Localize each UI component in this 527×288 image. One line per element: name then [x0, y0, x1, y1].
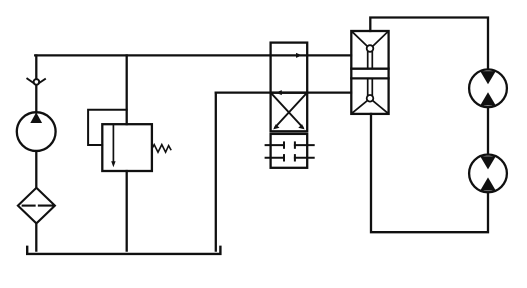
wire pump to filter [35, 151, 37, 188]
directional valve DV1 position box 2 crossed arrows [271, 93, 308, 132]
pilot operated check valve block CB1 [351, 31, 388, 114]
relief valve RV1 [102, 124, 152, 171]
wire relief pilot loop [88, 110, 127, 145]
wire return line vertical to tank [215, 93, 217, 251]
motor M2 [469, 155, 507, 193]
wire relief branch upper [126, 55, 128, 124]
wire top supply line [35, 54, 351, 56]
wire filter to tank [35, 223, 37, 250]
check valve CV1 [27, 79, 45, 85]
directional valve DV1 position box 1 [271, 43, 308, 93]
arrow left on DV1 divider line [276, 90, 282, 95]
wire pump branch vertical [35, 55, 37, 112]
motor M1 [469, 69, 507, 107]
wire CB1 top to motor loop [370, 18, 488, 70]
spring of relief valve RV1 [152, 145, 171, 153]
wire return line horizontal [216, 91, 351, 93]
wire CB1 bottom to motor loop [371, 114, 488, 232]
filter F1 [18, 188, 55, 224]
wire relief branch lower to tank [126, 171, 128, 251]
arrow right in DV1 box 1 [296, 53, 302, 58]
pump P1 [17, 112, 56, 151]
wire between motors [487, 107, 489, 154]
tank [27, 247, 220, 254]
directional valve DV1 position box 3 blocked ports [266, 134, 314, 168]
